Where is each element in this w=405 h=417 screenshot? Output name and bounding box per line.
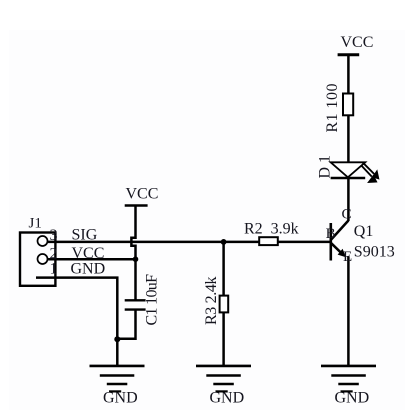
svg-text:J1: J1 xyxy=(29,216,42,232)
svg-text:GND: GND xyxy=(71,260,106,277)
svg-text:VCC: VCC xyxy=(126,186,159,203)
svg-text:VCC: VCC xyxy=(341,34,374,51)
svg-text:3: 3 xyxy=(50,227,58,244)
svg-text:SIG: SIG xyxy=(72,227,98,244)
svg-text:C1 10uF: C1 10uF xyxy=(144,274,161,326)
svg-text:R3 2.4k: R3 2.4k xyxy=(203,277,220,326)
svg-text:1: 1 xyxy=(50,260,58,277)
svg-text:Q1: Q1 xyxy=(354,223,374,240)
svg-text:R2 3.9k: R2 3.9k xyxy=(244,221,299,238)
svg-text:B: B xyxy=(326,226,336,242)
svg-text:S9013: S9013 xyxy=(354,243,395,260)
svg-text:C: C xyxy=(342,207,352,223)
svg-text:R1 100: R1 100 xyxy=(324,84,341,133)
svg-text:E: E xyxy=(343,249,352,265)
